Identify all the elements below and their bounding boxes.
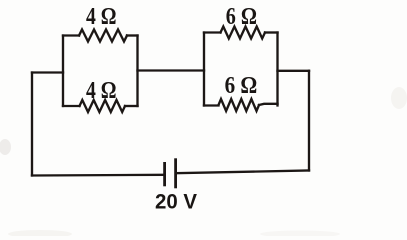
wire bottom branch right lead <box>125 105 138 107</box>
svg-text:4 Ω: 4 Ω <box>86 78 117 104</box>
resistor R3 6Ω (top-right zigzag) <box>221 27 266 39</box>
wire bottom branch left lead (right loop) <box>204 104 219 106</box>
resistor R1 4Ω (top-left zigzag) <box>79 30 127 42</box>
wire battery to bottom-right <box>176 171 309 174</box>
battery left plate (short) <box>163 162 166 186</box>
wire top branch left lead <box>63 34 79 36</box>
wire outer-right vertical <box>308 71 310 171</box>
svg-text:6 Ω: 6 Ω <box>226 4 257 30</box>
wire bottom branch left lead <box>63 105 80 107</box>
wire from right loop to outer-right vertical <box>278 70 310 72</box>
left parallel loop: left vertical wire <box>62 36 64 107</box>
wire bottom-left to battery <box>32 174 165 177</box>
right parallel loop: right vertical wire <box>276 33 278 106</box>
resistor R2 4Ω (bottom-left zigzag) <box>80 100 126 112</box>
resistor R4 6Ω (bottom-right zigzag) <box>219 99 260 111</box>
faint scan smudges <box>0 139 11 155</box>
left parallel loop: right vertical wire <box>136 36 138 107</box>
right parallel loop: left vertical wire <box>203 33 205 106</box>
battery right plate (long) <box>174 158 177 188</box>
svg-text:20 V: 20 V <box>155 191 197 214</box>
wire bottom branch right lead (right loop) <box>259 104 278 105</box>
circuit conductors <box>32 27 309 176</box>
wire from outer-left into left loop <box>32 71 63 73</box>
wire top branch right lead (right loop) <box>265 31 278 33</box>
wire top branch left lead (right loop) <box>204 31 221 33</box>
wire connecting left loop to right loop <box>138 69 205 71</box>
svg-text:4 Ω: 4 Ω <box>86 4 117 30</box>
wire top branch right lead <box>127 34 138 36</box>
svg-text:6 Ω: 6 Ω <box>225 73 258 99</box>
wire outer-left vertical <box>31 73 33 176</box>
battery B1 plates <box>165 158 176 188</box>
